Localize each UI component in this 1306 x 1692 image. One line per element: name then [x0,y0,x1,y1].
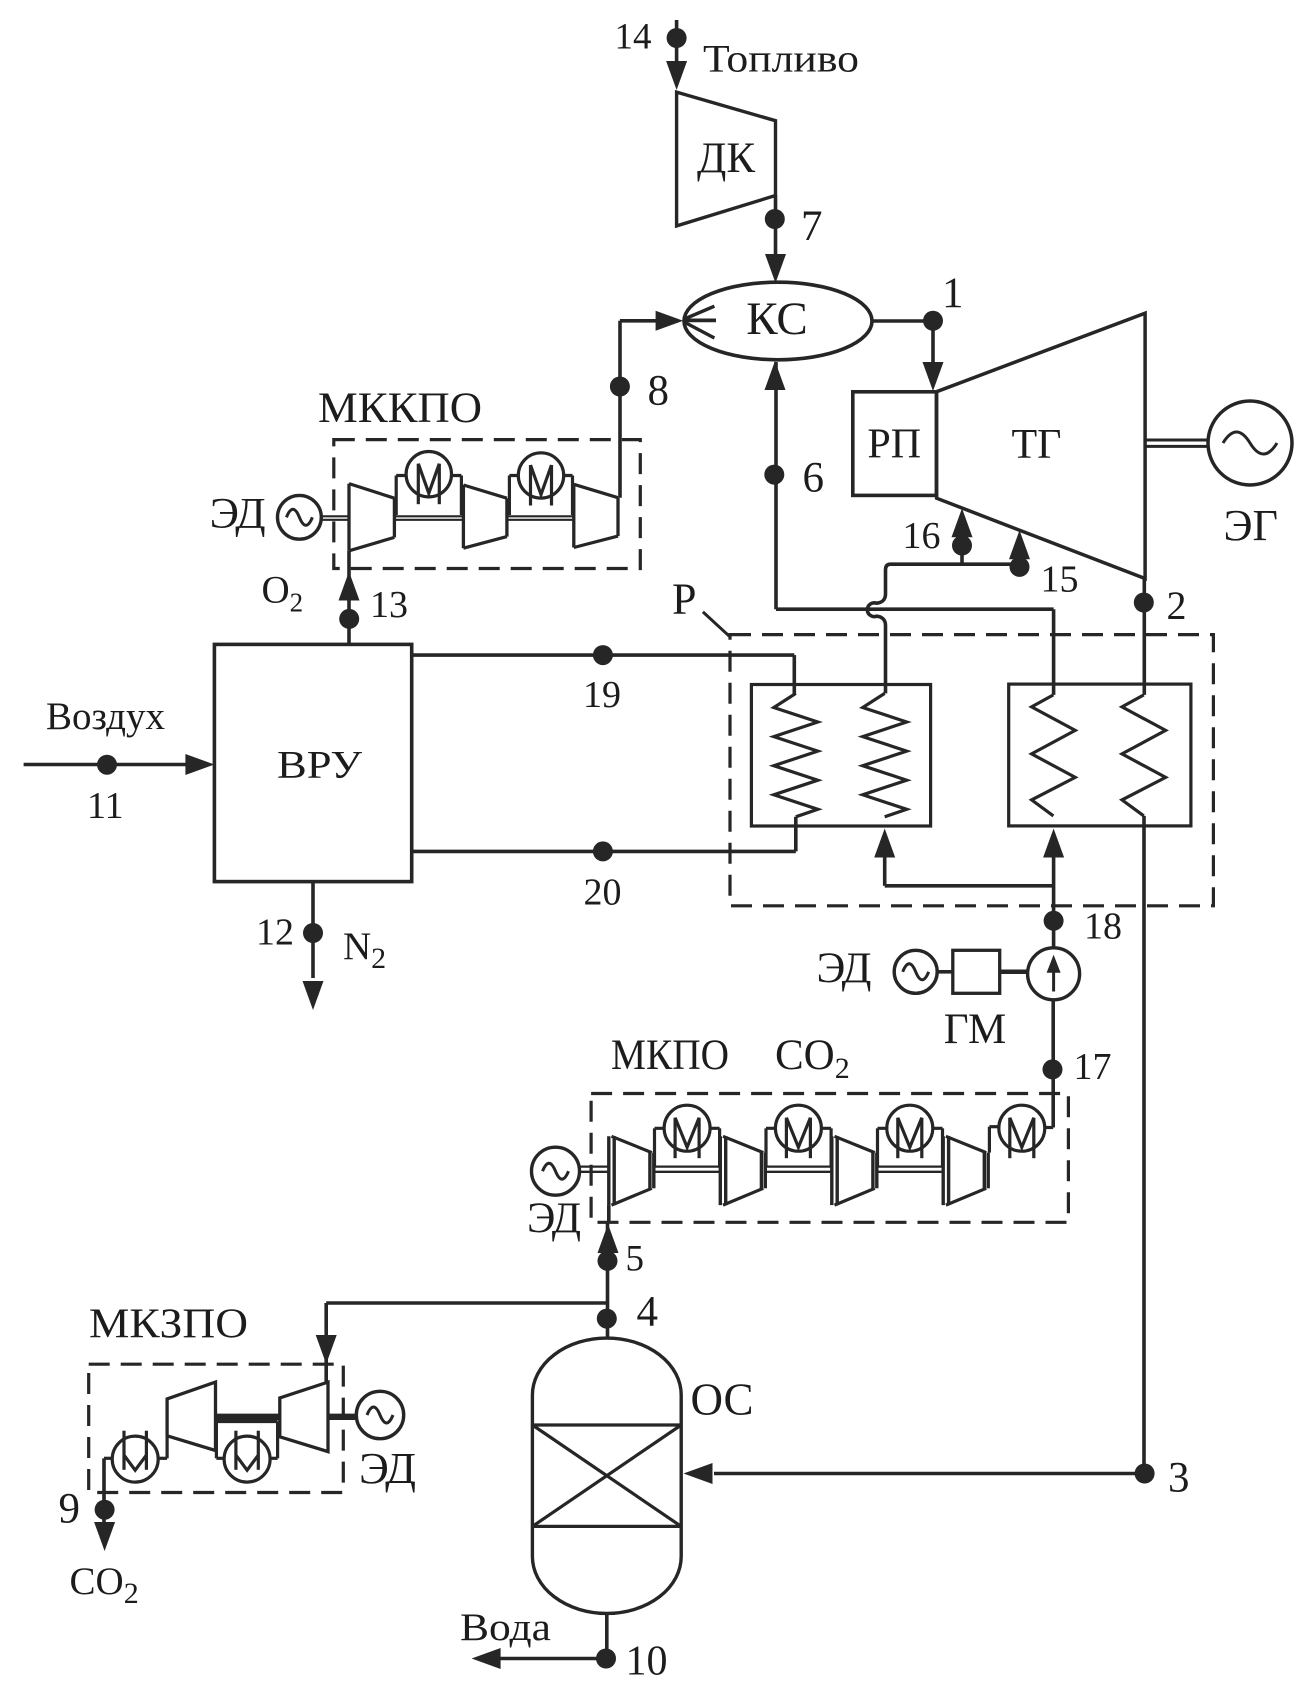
svg-text:6: 6 [803,455,825,502]
svg-text:5: 5 [626,1239,645,1280]
svg-text:О2: О2 [262,569,304,618]
svg-text:14: 14 [615,17,652,58]
svg-text:ОС: ОС [691,1375,754,1425]
svg-text:18: 18 [1084,906,1122,948]
svg-text:СО2: СО2 [775,1032,850,1085]
svg-text:ДК: ДК [697,135,755,182]
svg-text:ЭГ: ЭГ [1223,501,1277,550]
svg-text:ЭД: ЭД [817,945,872,992]
svg-text:2: 2 [1167,583,1187,628]
svg-text:7: 7 [801,203,823,250]
svg-text:Р: Р [672,575,696,624]
svg-text:МКПО: МКПО [611,1032,729,1079]
svg-text:9: 9 [59,1486,81,1533]
svg-text:ВРУ: ВРУ [277,743,362,786]
svg-text:РП: РП [867,422,921,468]
svg-text:3: 3 [1168,1455,1190,1502]
svg-text:12: 12 [256,912,294,954]
svg-text:1: 1 [942,270,964,317]
svg-text:ЭД: ЭД [359,1444,416,1493]
svg-text:МКЗПО: МКЗПО [89,1302,248,1348]
svg-text:20: 20 [584,872,622,914]
svg-text:15: 15 [1041,559,1079,601]
svg-text:МККПО: МККПО [318,385,482,432]
svg-text:19: 19 [583,674,621,716]
svg-text:11: 11 [87,785,124,827]
svg-text:4: 4 [637,1289,659,1336]
svg-text:16: 16 [903,515,941,557]
svg-text:17: 17 [1074,1046,1112,1088]
svg-text:ЭД: ЭД [210,491,266,538]
svg-text:ТГ: ТГ [1012,422,1062,468]
svg-text:8: 8 [648,368,670,415]
svg-text:Воздух: Воздух [46,695,165,738]
svg-text:Топливо: Топливо [703,38,859,81]
svg-text:Вода: Вода [460,1606,551,1649]
svg-text:13: 13 [370,584,408,626]
svg-text:10: 10 [626,1639,668,1685]
svg-text:ЭД: ЭД [527,1195,581,1242]
svg-text:СО2: СО2 [70,1560,139,1610]
svg-text:N2: N2 [343,925,386,975]
svg-text:КС: КС [746,293,808,345]
svg-text:ГМ: ГМ [944,1006,1007,1053]
